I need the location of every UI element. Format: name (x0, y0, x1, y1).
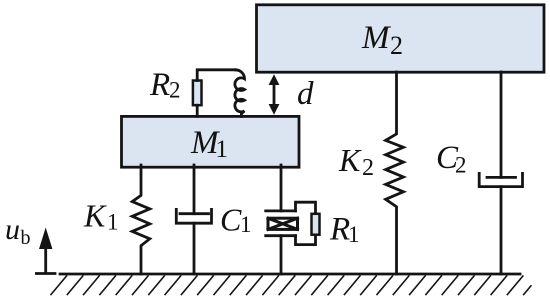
svg-text:2: 2 (169, 78, 181, 103)
mass M2 (257, 5, 545, 72)
svg-text:2: 2 (455, 153, 467, 178)
damper C1 piston (180, 212, 209, 215)
spring K1 (132, 165, 150, 274)
wire R2 bottom (196, 105, 199, 116)
svg-text:M: M (361, 20, 391, 56)
svg-text:1: 1 (216, 136, 229, 163)
svg-text:2: 2 (362, 155, 374, 181)
wire R2 top (197, 70, 235, 81)
spring K2 (386, 72, 404, 274)
EM damper crossed box (268, 218, 298, 229)
resistor R2 body (193, 81, 202, 106)
EM damper main rod bottom (280, 236, 283, 274)
svg-text:R: R (149, 67, 170, 103)
resistor R1 loop wire (296, 202, 316, 244)
svg-text:K: K (83, 198, 107, 234)
EM damper R1 main rod top (280, 165, 283, 211)
gap arrow d (273, 82, 276, 107)
svg-text:K: K (338, 142, 362, 178)
ground hatching (51, 276, 531, 295)
svg-text:C: C (220, 202, 242, 238)
svg-text:b: b (21, 227, 31, 249)
damper C2 cup (479, 173, 522, 186)
damper C1 cup (176, 209, 211, 223)
svg-text:u: u (5, 213, 20, 246)
svg-text:d: d (297, 76, 314, 112)
svg-text:1: 1 (107, 210, 119, 235)
mass M1 (122, 116, 300, 167)
damper C2 rod top (500, 72, 503, 177)
svg-text:1: 1 (348, 222, 360, 247)
damper C1 rod top (193, 165, 196, 214)
resistor R1 body (312, 214, 320, 235)
damper C2 rod bottom (500, 187, 503, 274)
damper C2 piston (487, 176, 516, 179)
damper C1 rod bottom (193, 223, 196, 274)
ground (60, 273, 520, 276)
EM damper top plate (266, 209, 296, 212)
base arrow u_b (36, 272, 55, 275)
svg-text:R: R (329, 212, 350, 248)
svg-text:1: 1 (240, 212, 252, 237)
svg-text:2: 2 (390, 31, 403, 60)
inductor coil L (235, 70, 245, 117)
EM damper bottom plate (266, 234, 296, 237)
